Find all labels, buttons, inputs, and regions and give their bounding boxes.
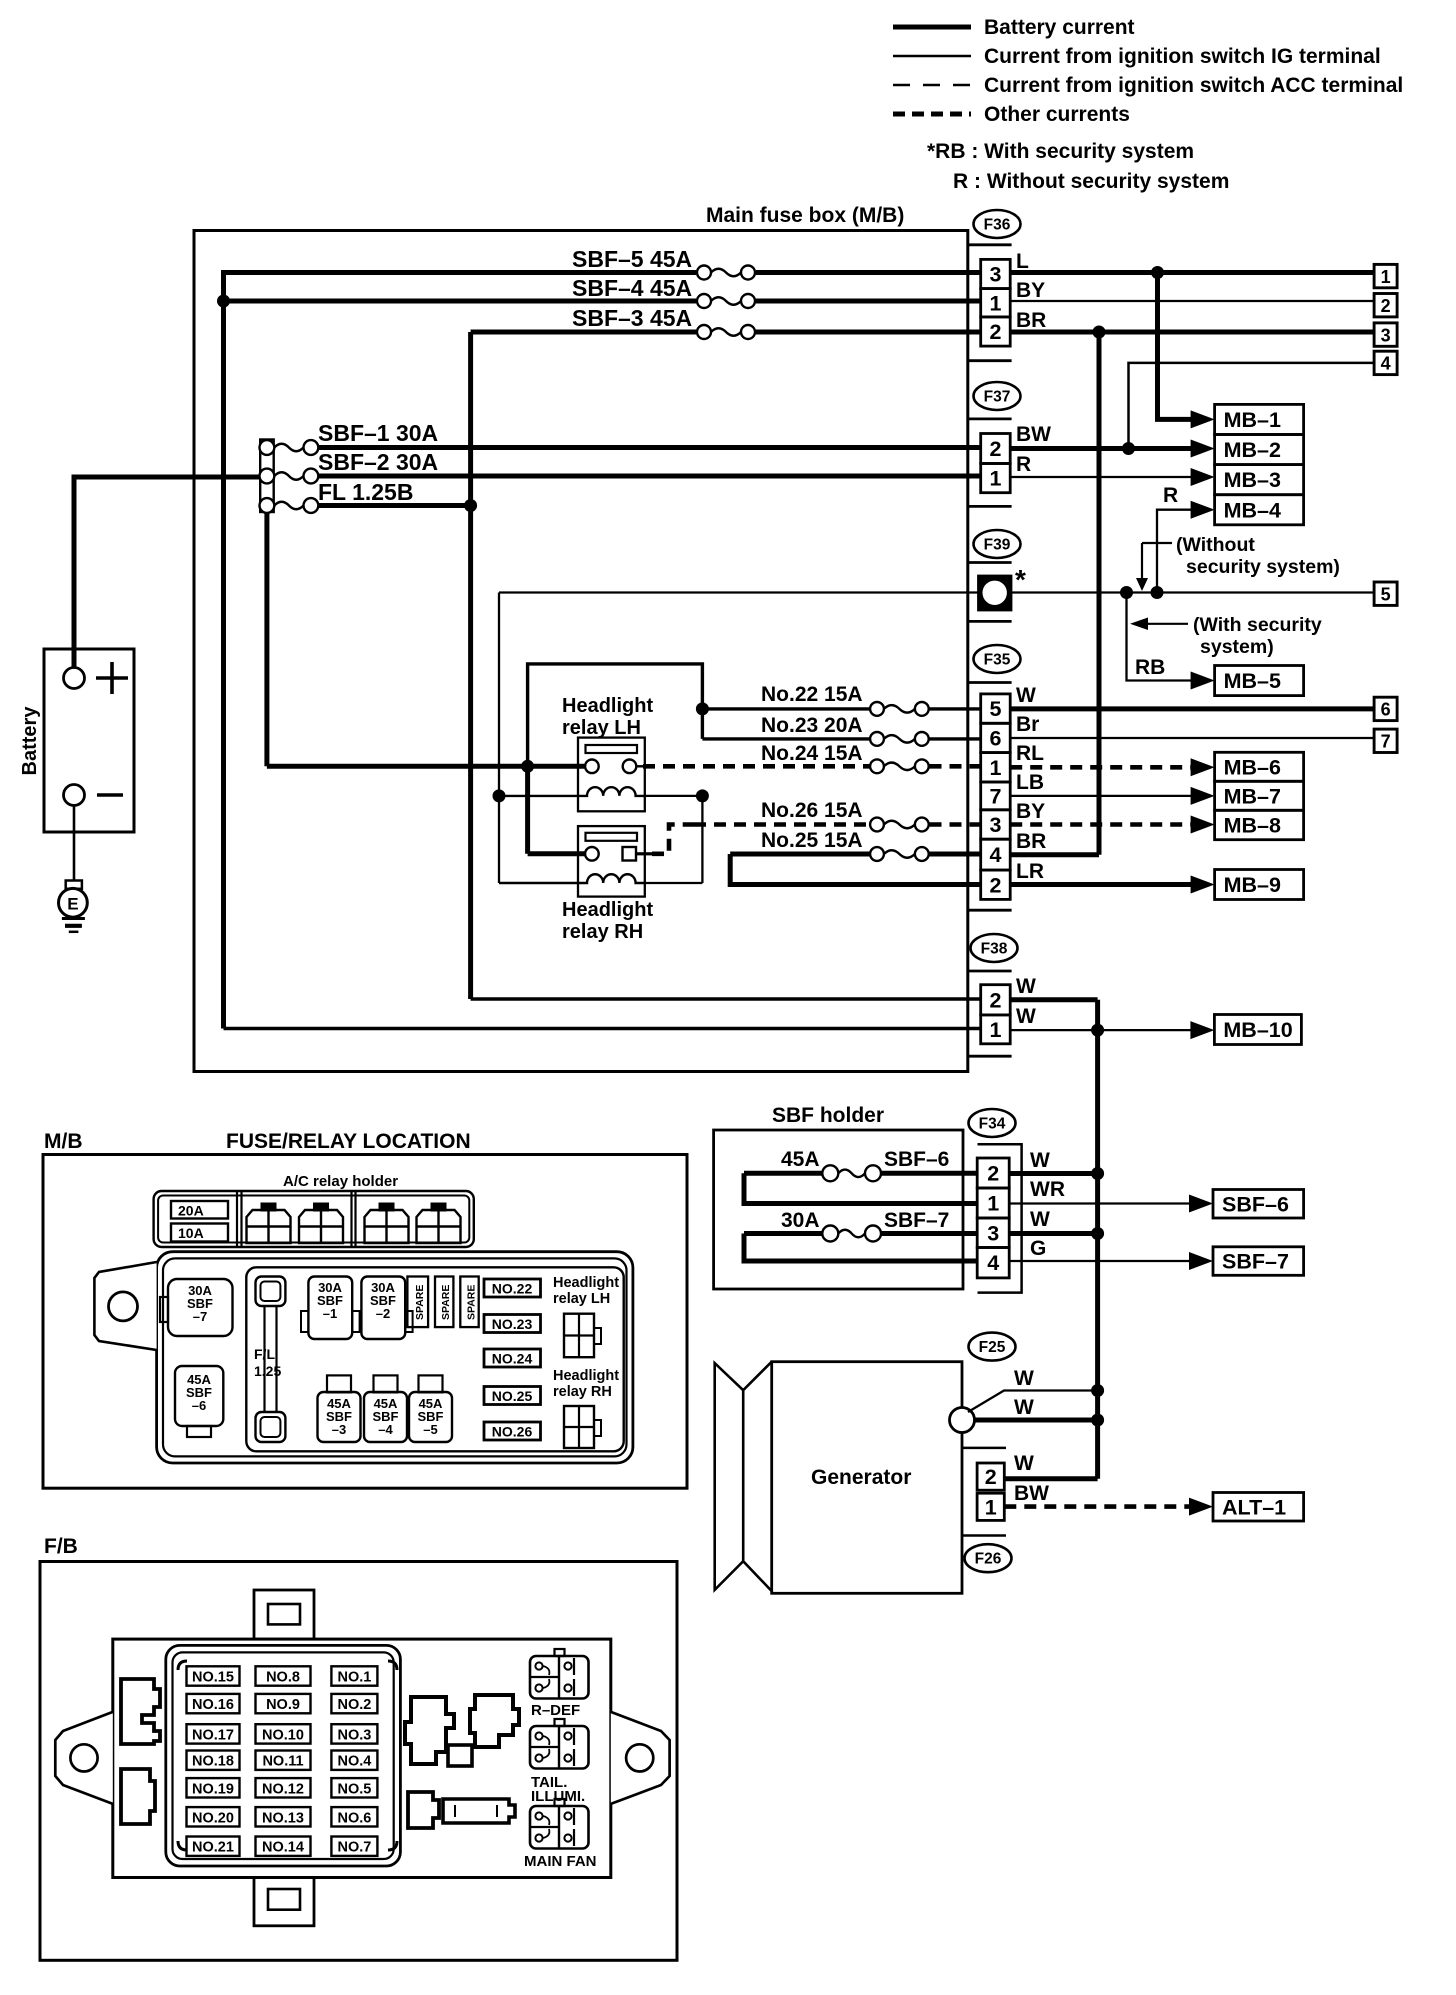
- wire No.22 15A: [702, 707, 869, 710]
- SPARE fuse box 3: [460, 1277, 478, 1328]
- svg-text:NO.4: NO.4: [337, 1754, 371, 1770]
- relay RH jog to No.26 wire (dashed): [652, 825, 694, 854]
- junction No.22 branch: [696, 702, 709, 715]
- fuse box NO.7: [331, 1837, 377, 1856]
- terminal box 3: [1374, 323, 1397, 346]
- F/B middle connector shape 1: [405, 1697, 454, 1764]
- fuse No.22: [870, 702, 884, 716]
- svg-text:–6: –6: [192, 1398, 206, 1413]
- connector F34 pin 3: [977, 1218, 1009, 1248]
- wire SBF-4 45A (to F36 pin 1): [222, 299, 697, 304]
- svg-text:MB–7: MB–7: [1224, 784, 1281, 808]
- svg-text:2: 2: [987, 1162, 999, 1186]
- connector separator ticks on main box right edge: [968, 243, 1012, 246]
- F/B inner fuse box: [113, 1639, 611, 1877]
- F/B middle connector shape 4: [408, 1792, 439, 1828]
- F/B relay R-DEF icon: [555, 1649, 565, 1656]
- svg-text:NO.22: NO.22: [492, 1281, 533, 1297]
- headlight relay RH box: [578, 826, 645, 897]
- F/B top tab: [254, 1590, 314, 1639]
- wire W generator horizontal (thick): [975, 1418, 1098, 1423]
- svg-text:W: W: [1014, 1367, 1034, 1390]
- relay RH contact right: [623, 847, 637, 861]
- svg-text:1: 1: [989, 756, 1001, 780]
- fuse box NO.11: [256, 1751, 311, 1770]
- svg-text:1.25: 1.25: [254, 1363, 281, 1379]
- 45A SBF-6 connector icon: [175, 1366, 223, 1426]
- svg-text:7: 7: [989, 784, 1001, 808]
- junction coil feed: [493, 789, 506, 802]
- 10A fuse box: [171, 1224, 228, 1242]
- main fuse box outline: [194, 231, 968, 1072]
- generator box: [772, 1362, 962, 1594]
- ground symbol bars: [62, 917, 85, 920]
- svg-text:30A: 30A: [781, 1209, 820, 1232]
- wire G to SBF-7 box: [1009, 1260, 1193, 1262]
- SPARE fuse box 2: [435, 1277, 453, 1328]
- connector F35 pin 3: [981, 810, 1011, 839]
- wire W generator diagonal (thin): [968, 1391, 1098, 1413]
- fuse box NO.19: [187, 1778, 240, 1797]
- A/C strip divider 2: [350, 1191, 352, 1247]
- upper BR bus vertical: [1097, 332, 1102, 855]
- battery minus sign: [97, 793, 123, 797]
- junction at SBF-4 branch: [217, 295, 230, 308]
- vertical wire SBF-3 / FL junction down to F38 pin 2: [468, 332, 473, 999]
- connector F36 pin 2: [981, 317, 1011, 346]
- wire W F34 pin2 to bus: [1009, 1171, 1097, 1176]
- svg-text:W: W: [1030, 1149, 1050, 1172]
- svg-text:NO.9: NO.9: [266, 1697, 300, 1713]
- wire No.25 15A: [730, 852, 869, 857]
- wire relay feed down to RH relay contact: [525, 766, 530, 854]
- svg-text:RL: RL: [1016, 742, 1044, 765]
- svg-text:F/L: F/L: [254, 1346, 275, 1362]
- battery box: [44, 649, 134, 832]
- SBF-6 box: [1213, 1190, 1304, 1219]
- svg-text:1: 1: [985, 1495, 997, 1519]
- fuse box NO.15: [187, 1666, 240, 1685]
- svg-text:SBF–4 45A: SBF–4 45A: [572, 275, 692, 301]
- svg-text:*: *: [1015, 564, 1026, 595]
- svg-text:NO.19: NO.19: [192, 1781, 234, 1797]
- relay RH contact left: [585, 847, 599, 861]
- wire SBF-2 to F37 pin 1: [318, 474, 981, 479]
- svg-text:1: 1: [989, 291, 1001, 315]
- fuse SBF-3 45A: [697, 325, 711, 339]
- fuse box NO.21: [187, 1837, 240, 1856]
- fuse box NO.18: [187, 1751, 240, 1770]
- connector F36 pin 1: [981, 289, 1011, 317]
- MB-8 box: [1215, 810, 1304, 839]
- wire W F38 pin2 to bus corner: [1010, 997, 1097, 1002]
- svg-text:MB–6: MB–6: [1224, 755, 1281, 779]
- svg-text:NO.17: NO.17: [192, 1727, 234, 1743]
- svg-text:FUSE/RELAY LOCATION: FUSE/RELAY LOCATION: [226, 1130, 471, 1153]
- fuse box NO.8: [256, 1666, 311, 1685]
- fuse SBF-1 30A: [260, 440, 275, 455]
- svg-text:1: 1: [1381, 267, 1391, 287]
- svg-text:F26: F26: [975, 1551, 1002, 1568]
- svg-text:2: 2: [985, 1465, 997, 1489]
- wire SBF-5 45A (to F36 pin 3): [224, 270, 697, 275]
- ground E terminal tab: [66, 881, 82, 889]
- connector F35 label: [974, 645, 1021, 673]
- svg-text:10A: 10A: [178, 1225, 204, 1241]
- fuse SBF-6 45A: [822, 1165, 838, 1181]
- connector F34 pin 4: [977, 1248, 1009, 1278]
- svg-text:ALT–1: ALT–1: [1222, 1495, 1286, 1519]
- connector F37 label: [974, 382, 1021, 410]
- svg-text:7: 7: [1381, 732, 1391, 752]
- svg-text:1: 1: [989, 467, 1001, 491]
- wire 30A U-loop to pin 4: [744, 1234, 977, 1262]
- wire fuse bus down to headlight relay feed: [264, 512, 269, 766]
- svg-text:Current from ignition switch A: Current from ignition switch ACC termina…: [984, 74, 1403, 97]
- fuse No.26: [870, 818, 884, 832]
- vertical LB junction down to RH coil right: [701, 796, 703, 883]
- wire Br to terminal 7: [1010, 737, 1374, 739]
- svg-text:SPARE: SPARE: [440, 1285, 452, 1320]
- svg-text:F38: F38: [981, 941, 1008, 958]
- battery plus sign: [96, 676, 128, 680]
- MB-5 box: [1215, 666, 1304, 696]
- svg-text:BR: BR: [1016, 309, 1046, 332]
- svg-text:NO.24: NO.24: [492, 1351, 533, 1367]
- fuse box NO.6: [331, 1807, 377, 1826]
- svg-text:(Without: (Without: [1176, 534, 1255, 556]
- svg-text:No.25 15A: No.25 15A: [761, 829, 863, 852]
- connector F34 bracket: [978, 1144, 1022, 1292]
- svg-text:Headlight: Headlight: [553, 1275, 619, 1291]
- connector F35 pin 4: [981, 839, 1011, 870]
- generator connector pin 1: [977, 1493, 1004, 1520]
- fuse SBF-4 45A: [697, 294, 711, 308]
- F/B middle connector shape 2: [470, 1695, 519, 1747]
- svg-text:2: 2: [1381, 296, 1391, 316]
- svg-text:R : Without security system: R : Without security system: [953, 170, 1229, 193]
- svg-text:6: 6: [1381, 700, 1391, 720]
- fuse box NO.16: [187, 1694, 240, 1713]
- vertical wire from SBF-5/SBF-4 down to F38 pin 1 branch: [221, 270, 226, 1029]
- svg-text:relay RH: relay RH: [553, 1384, 612, 1400]
- connector F37 pin 2: [981, 434, 1011, 464]
- svg-text:–1: –1: [323, 1306, 337, 1321]
- svg-text:NO.26: NO.26: [492, 1424, 533, 1440]
- connector F36 label: [974, 210, 1021, 238]
- 30A SBF-2 connector icon: [361, 1277, 405, 1340]
- svg-text:No.23 20A: No.23 20A: [761, 714, 863, 737]
- fuse box NO.13: [256, 1807, 311, 1826]
- legend: IG terminal line sample: [893, 55, 971, 58]
- svg-text:SBF–6: SBF–6: [884, 1148, 949, 1171]
- svg-text:Headlight: Headlight: [562, 899, 653, 921]
- F/B middle connector shape 3: [448, 1745, 472, 1766]
- svg-text:W: W: [1016, 684, 1036, 707]
- fuse bus bar connecting SBF-1 SBF-2 FL left terminals: [260, 440, 274, 513]
- fuse label box NO.22: [484, 1279, 541, 1297]
- fuse box NO.5: [331, 1778, 377, 1797]
- connector F37 pin 1: [981, 464, 1011, 493]
- M/B location outer box: [43, 1155, 687, 1489]
- svg-text:NO.15: NO.15: [192, 1670, 234, 1686]
- headlight relay feed wire: [267, 764, 592, 769]
- MB-9 box: [1215, 870, 1304, 900]
- svg-text:F25: F25: [979, 1339, 1006, 1356]
- fuse SBF-2 30A: [260, 469, 275, 484]
- fuse box NO.14: [256, 1837, 311, 1856]
- relay LH armature bar: [586, 745, 638, 753]
- wire BW generator pin1 to ALT-1 (dashed): [1004, 1504, 1196, 1509]
- wire WR to SBF-6 box: [1009, 1202, 1193, 1204]
- svg-text:relay LH: relay LH: [562, 717, 641, 739]
- MB-2 box: [1215, 435, 1304, 465]
- svg-text:2: 2: [989, 437, 1001, 461]
- svg-text:NO.25: NO.25: [492, 1388, 533, 1404]
- wire across bottom to F38 pin 1: [224, 1027, 982, 1030]
- junction F38 pin1 bus: [1091, 1024, 1104, 1037]
- svg-text:F39: F39: [984, 537, 1011, 554]
- fuse FL 1.25B: [260, 498, 275, 513]
- pointer arrow to RB branch: [1145, 623, 1188, 625]
- svg-text:MB–4: MB–4: [1224, 498, 1281, 522]
- svg-text:R–DEF: R–DEF: [531, 1702, 580, 1719]
- fuse box NO.3: [331, 1724, 377, 1743]
- F/B relay TAIL ILLUMI icon: [555, 1719, 565, 1726]
- svg-text:relay RH: relay RH: [562, 921, 643, 943]
- svg-text:BW: BW: [1016, 423, 1051, 446]
- connector F35 pin 2: [981, 870, 1011, 899]
- MB-1 box: [1215, 404, 1304, 434]
- svg-text:2: 2: [989, 988, 1001, 1012]
- svg-text:(With security: (With security: [1193, 614, 1322, 636]
- connector F39 label: [974, 530, 1021, 558]
- battery positive terminal: [64, 668, 85, 689]
- fuse box NO.12: [256, 1778, 311, 1797]
- A/C relay holder strip outer: [154, 1191, 474, 1247]
- svg-text:SBF–6: SBF–6: [1222, 1192, 1289, 1216]
- vertical coil feed from F39 wire: [498, 593, 500, 884]
- wire W generator pin2 to bus: [1004, 1476, 1097, 1481]
- svg-text:NO.23: NO.23: [492, 1316, 533, 1332]
- svg-text:No.22 15A: No.22 15A: [761, 683, 863, 706]
- F/B outer box: [40, 1562, 677, 1961]
- M/B mounting tab hole: [109, 1292, 138, 1321]
- svg-text:R: R: [1163, 484, 1178, 507]
- svg-text:SBF–1 30A: SBF–1 30A: [318, 420, 438, 446]
- svg-text:F36: F36: [984, 217, 1011, 234]
- svg-text:F34: F34: [979, 1116, 1006, 1133]
- F/B left bracket: [55, 1712, 113, 1804]
- wire BY to MB-8 (dashed): [1010, 822, 1196, 827]
- svg-text:MB–9: MB–9: [1224, 873, 1281, 897]
- fuse box NO.2: [331, 1694, 377, 1713]
- svg-text:4: 4: [989, 843, 1001, 867]
- junction BR to bus: [1093, 326, 1106, 339]
- svg-text:MB–1: MB–1: [1224, 408, 1281, 432]
- A/C relay connector icon 2: [313, 1203, 329, 1212]
- svg-text:FL 1.25B: FL 1.25B: [318, 479, 413, 505]
- F/B relay MAIN FAN icon: [555, 1799, 565, 1806]
- svg-text:5: 5: [1381, 585, 1391, 605]
- generator output terminal circle: [950, 1408, 975, 1433]
- svg-text:Generator: Generator: [811, 1466, 911, 1489]
- F/B fuse grid area: [166, 1645, 401, 1866]
- connector F38 pin 1: [981, 1015, 1011, 1044]
- ground E circle: [59, 888, 88, 917]
- svg-text:No.26 15A: No.26 15A: [761, 799, 863, 822]
- wire SBF-1 to F37 pin 2: [318, 445, 981, 450]
- MB-3 box: [1215, 465, 1304, 495]
- ALT-1 box: [1213, 1493, 1304, 1522]
- svg-text:–3: –3: [332, 1422, 346, 1437]
- wire FL junction to F38 pin 2: [471, 997, 981, 1000]
- svg-text:MB–5: MB–5: [1224, 669, 1281, 693]
- svg-text:SPARE: SPARE: [414, 1285, 426, 1320]
- wire battery negative to ground: [73, 805, 76, 881]
- svg-text:BY: BY: [1016, 279, 1045, 302]
- connector F35 pin 5: [981, 694, 1011, 723]
- generator connector pin 2: [977, 1463, 1004, 1490]
- terminal box 2: [1374, 294, 1397, 317]
- svg-text:6: 6: [989, 726, 1001, 750]
- svg-text:Battery: Battery: [19, 706, 41, 776]
- svg-text:BR: BR: [1016, 830, 1046, 853]
- wire SBF-3 45A (to F36 pin 2): [471, 330, 696, 335]
- terminal box 1: [1374, 264, 1397, 287]
- svg-text:security system): security system): [1186, 556, 1340, 578]
- svg-text:W: W: [1014, 1452, 1034, 1475]
- svg-text:Main fuse box (M/B): Main fuse box (M/B): [706, 204, 904, 227]
- fuse box NO.17: [187, 1724, 240, 1743]
- connector F35 pin 1: [981, 753, 1011, 782]
- MB-6 box: [1215, 752, 1304, 781]
- wire RL to MB-6 (dashed): [1010, 765, 1196, 770]
- wire L to terminal 1: [1010, 270, 1374, 275]
- 45A SBF-4 connector icon: [374, 1375, 398, 1392]
- svg-text:W: W: [1014, 1396, 1034, 1419]
- wire W to terminal 6: [1010, 706, 1374, 711]
- wire FL fuse to junction: [318, 503, 471, 508]
- svg-text:NO.10: NO.10: [262, 1727, 304, 1743]
- junction BW to terminal4 branch: [1122, 442, 1135, 455]
- junction * wire RB branch: [1120, 586, 1133, 599]
- wire LH coil left to junction: [499, 795, 578, 797]
- wire RB branch down to MB-5: [1127, 593, 1197, 681]
- svg-text:NO.13: NO.13: [262, 1810, 304, 1826]
- connector F36 pin 3: [981, 259, 1011, 288]
- svg-text:45A: 45A: [781, 1148, 820, 1171]
- F/B right bracket: [611, 1712, 670, 1804]
- svg-text:–5: –5: [423, 1422, 437, 1437]
- F/B left connector shape B: [121, 1769, 155, 1824]
- svg-text:RB: RB: [1135, 656, 1165, 679]
- fuse No.24: [870, 759, 884, 773]
- wire BR from bus into pin 4: [1010, 852, 1099, 857]
- wire RH coil right: [645, 882, 703, 884]
- wire 45A U-loop to pin 1: [744, 1173, 977, 1203]
- wire No.25 drop to F35 pin 2: [730, 854, 981, 885]
- connector F34 label: [969, 1109, 1016, 1137]
- fuse box NO.20: [187, 1807, 240, 1826]
- svg-text:L: L: [1016, 250, 1029, 273]
- svg-text:LR: LR: [1016, 860, 1044, 883]
- svg-text:E: E: [67, 895, 78, 914]
- wire No.23 20A: [702, 737, 869, 740]
- svg-text:SBF–7: SBF–7: [1222, 1250, 1289, 1274]
- terminal box 5: [1374, 582, 1397, 605]
- A/C relay connector icon 4: [431, 1203, 447, 1212]
- svg-text:Br: Br: [1016, 713, 1039, 736]
- fuse box NO.10: [256, 1724, 311, 1743]
- connector F38 pin 2: [981, 985, 1011, 1015]
- svg-text:–4: –4: [378, 1422, 393, 1437]
- svg-text:F35: F35: [984, 652, 1011, 669]
- svg-text:WR: WR: [1030, 1178, 1065, 1201]
- svg-text:W: W: [1016, 975, 1036, 998]
- 45A SBF-5 connector icon: [419, 1375, 443, 1392]
- MB-10 box: [1214, 1015, 1301, 1045]
- 20A fuse box: [171, 1201, 228, 1219]
- fuse SBF-5 45A: [697, 266, 711, 280]
- svg-text:MB–10: MB–10: [1223, 1018, 1292, 1042]
- wire 45A fuse row: [744, 1171, 822, 1176]
- svg-text:NO.6: NO.6: [337, 1810, 371, 1826]
- connector F26 label: [965, 1544, 1012, 1572]
- wire BR to terminal 3: [1010, 330, 1374, 335]
- junction L to MB-1: [1151, 266, 1164, 279]
- terminal box 7: [1374, 729, 1397, 752]
- svg-text:NO.16: NO.16: [192, 1697, 234, 1713]
- relay LH contact left: [585, 760, 599, 774]
- SPARE fuse box 1: [407, 1277, 428, 1328]
- svg-text:W: W: [1030, 1208, 1050, 1231]
- wire * to terminal 5: [1011, 591, 1374, 593]
- fuse label box NO.25: [484, 1387, 541, 1405]
- wire No.26 15A (dashed): [694, 822, 870, 827]
- terminal box 4: [1374, 351, 1397, 374]
- F/L 1.25 fusible link icon: [256, 1277, 286, 1307]
- svg-text:NO.2: NO.2: [337, 1697, 371, 1713]
- legend: other currents dashed line sample: [893, 112, 971, 117]
- fuse box NO.9: [256, 1694, 311, 1713]
- fuse No.23: [870, 732, 884, 746]
- junction * wire R branch: [1151, 586, 1164, 599]
- svg-text:SBF–3 45A: SBF–3 45A: [572, 305, 692, 331]
- wire W F34 pin3 to bus: [1009, 1231, 1097, 1236]
- svg-text:Headlight: Headlight: [553, 1368, 619, 1384]
- svg-text:20A: 20A: [178, 1203, 204, 1219]
- svg-text:Headlight: Headlight: [562, 695, 653, 717]
- wire MB-4 from * net: [1157, 510, 1196, 593]
- junction FL / SBF-3 vertical: [464, 499, 477, 512]
- svg-text:1: 1: [987, 1192, 999, 1216]
- relay LH contact right: [623, 760, 637, 774]
- svg-text:Other currents: Other currents: [984, 103, 1130, 126]
- pointer to without-security wire: [1142, 542, 1172, 544]
- svg-text:NO.7: NO.7: [337, 1840, 371, 1856]
- MB-4 box: [1215, 495, 1304, 525]
- connector F35 pin 6: [981, 723, 1011, 752]
- svg-text:F/B: F/B: [44, 1535, 78, 1558]
- legend: ACC terminal dashed line sample: [893, 84, 971, 87]
- svg-text:3: 3: [1381, 325, 1391, 345]
- wire No.24 15A (dashed): [643, 764, 870, 769]
- connector F34 pin 1: [977, 1188, 1009, 1218]
- 30A SBF-7 connector icon: [168, 1279, 233, 1336]
- svg-text:F37: F37: [984, 389, 1011, 406]
- MB-7 box: [1215, 781, 1304, 810]
